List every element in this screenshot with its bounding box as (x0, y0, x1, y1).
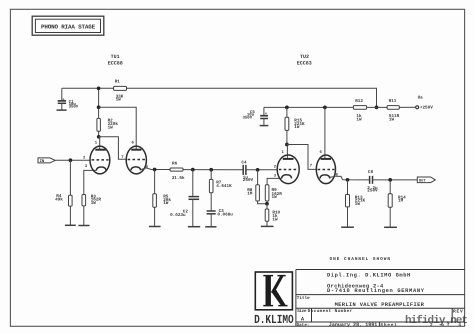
tube TU2 label (297, 54, 312, 66)
resistor R11 (387, 99, 400, 122)
wire C6 to OUT (373, 179, 418, 181)
wire cathode B to node (146, 168, 170, 170)
svg-text:+250V: +250V (420, 105, 433, 110)
wire rail to plate B TU2 (324, 107, 326, 158)
svg-text:1W: 1W (355, 202, 361, 207)
capacitor C2 (170, 170, 199, 227)
svg-text:350V: 350V (69, 105, 79, 110)
ground (R13) (341, 226, 354, 228)
node R7 junction (209, 168, 213, 172)
svg-text:January 28, 1991: January 28, 1991 (329, 322, 378, 328)
capacitor C6 (367, 170, 378, 194)
svg-text:R1: R1 (115, 79, 121, 84)
svg-text:1W: 1W (272, 195, 278, 200)
title box PHONO RIAA STAGE (32, 16, 104, 35)
wire R1 to B+ rail (127, 88, 377, 107)
svg-text:1W: 1W (356, 117, 362, 122)
resistor R15 (285, 107, 305, 144)
wire plate A to grid B coupling TU2 (287, 145, 317, 170)
svg-text:250V: 250V (243, 178, 254, 183)
svg-text:1M: 1M (247, 192, 253, 197)
svg-text:1M: 1M (398, 199, 404, 204)
triode TU2-A (274, 150, 300, 184)
wire R6 to C4 (183, 169, 243, 171)
logo K box (255, 272, 292, 310)
svg-text:Dipl.Ing. D.KLIMO GmbH: Dipl.Ing. D.KLIMO GmbH (327, 272, 410, 278)
svg-text:hifidiy.net: hifidiy.net (405, 314, 468, 327)
svg-text:0.068u: 0.068u (217, 213, 233, 218)
triode TU2-B (310, 150, 339, 184)
tube TU1 label (108, 54, 123, 66)
resistor R9 (265, 178, 282, 203)
svg-text:Ua: Ua (418, 95, 424, 100)
svg-text:IN: IN (40, 159, 45, 164)
connector OUT (417, 177, 435, 184)
svg-text:PHONO RIAA STAGE: PHONO RIAA STAGE (41, 24, 96, 31)
svg-text:R12: R12 (355, 99, 363, 104)
resistor R12 (353, 99, 366, 122)
ground (R10) (261, 225, 274, 227)
svg-text:1W: 1W (163, 201, 169, 206)
svg-text:TU1: TU1 (111, 54, 120, 60)
wire R2 to plate A (98, 131, 100, 137)
wire plate A to grid B coupling (99, 137, 127, 160)
ground (R3) (78, 225, 89, 227)
triode TU1-B (121, 141, 148, 174)
resistor R4 (55, 160, 72, 225)
node R15 rail junction (285, 106, 289, 110)
svg-text:C6: C6 (368, 170, 374, 175)
wire node-X rail left (62, 87, 114, 89)
wire IN to grid A (55, 159, 90, 161)
svg-text:1W: 1W (116, 98, 122, 103)
triode TU1-A (83, 140, 110, 174)
title block company text (297, 272, 463, 328)
svg-text:R6: R6 (172, 162, 178, 167)
svg-text:1W: 1W (389, 117, 395, 122)
svg-text:OUT: OUT (419, 179, 426, 184)
capacitor C3 (207, 209, 234, 226)
wire node X down to R2 (98, 88, 100, 118)
B+ rail stage 2 (264, 106, 354, 108)
title block frame (296, 270, 465, 327)
svg-text:0.023u: 0.023u (170, 213, 186, 218)
ground (R4) (65, 224, 76, 226)
wire cathode B TU2 to output node (335, 176, 369, 180)
svg-text:D.KLIMO: D.KLIMO (254, 313, 294, 327)
svg-text:350V: 350V (243, 115, 253, 120)
node plate TU2-B rail junction (323, 106, 327, 110)
svg-text:ONE CHANNEL SHOWN: ONE CHANNEL SHOWN (330, 257, 391, 262)
ground (R5) (149, 226, 161, 228)
resistor R3 (82, 170, 101, 225)
svg-text:R11: R11 (389, 99, 397, 104)
wire cathode TU2-B lead (330, 176, 336, 177)
svg-text:1W: 1W (108, 125, 114, 130)
svg-text:ECC83: ECC83 (297, 60, 312, 66)
resistor R2 (97, 118, 118, 131)
terminal Ua +250V (399, 95, 433, 110)
ground (C1) (57, 109, 67, 111)
ground (R14) (384, 226, 397, 228)
resistor R14 (388, 180, 406, 227)
wire cathode TU1-B lead (141, 168, 147, 170)
ground (C5) (260, 125, 269, 127)
svg-text:TU2: TU2 (300, 54, 309, 60)
ground (C2) (188, 226, 200, 228)
node grid TU2-A junction (256, 168, 260, 172)
resistor R1 (114, 79, 127, 102)
svg-text:1W: 1W (91, 201, 97, 206)
connector IN (38, 158, 55, 164)
svg-text:Document Number: Document Number (308, 308, 353, 314)
resistor R6 (170, 162, 185, 181)
wire to TU1 plate B (99, 107, 137, 149)
wire plate A TU2 lead (286, 145, 288, 159)
node R10 top junction (265, 202, 269, 206)
svg-text:250V: 250V (367, 189, 378, 194)
svg-text:C4: C4 (241, 161, 247, 166)
node R12 R11 rail junction (375, 106, 379, 110)
node junction dots (97, 86, 101, 90)
node grid TU1-A junction (69, 158, 73, 162)
node plate TU2-A junction (285, 143, 289, 147)
node plate TU1-A junction (97, 135, 101, 139)
capacitor C4 (241, 161, 253, 184)
node R14 junction (388, 178, 392, 182)
wire R12 to R11 (367, 106, 388, 108)
svg-text:1W: 1W (294, 125, 300, 130)
svg-text:1W: 1W (272, 217, 278, 222)
node cathode TU2-B junction (346, 178, 350, 182)
wire plate A lead (99, 137, 101, 150)
ground (C3) (205, 226, 216, 228)
svg-text:Sheet: Sheet (380, 322, 397, 328)
svg-text:31.5k: 31.5k (172, 175, 185, 181)
resistor R13 (346, 180, 366, 227)
svg-text:Title: Title (297, 295, 310, 301)
node C2 junction (191, 168, 195, 172)
svg-text:49k: 49k (55, 196, 63, 202)
svg-text:Date:: Date: (297, 323, 310, 328)
resistor R7 (209, 170, 232, 211)
svg-text:REV: REV (453, 308, 463, 314)
resistor R8 (247, 170, 267, 204)
resistor R5 (153, 170, 172, 227)
capacitor C1 (58, 88, 79, 110)
wire C4 to grid TU2-A (246, 169, 278, 171)
node cathode TU1-B junction (153, 168, 157, 172)
svg-text:D-7410 Reutlingen GERMANY: D-7410 Reutlingen GERMANY (327, 288, 425, 294)
capacitor C5 (243, 107, 269, 125)
resistor R10 (265, 204, 280, 227)
svg-text:MERLIN VALVE PREAMPLIFIER: MERLIN VALVE PREAMPLIFIER (335, 302, 425, 308)
svg-text:ECC88: ECC88 (108, 60, 123, 66)
svg-text:4.641K: 4.641K (216, 184, 232, 189)
